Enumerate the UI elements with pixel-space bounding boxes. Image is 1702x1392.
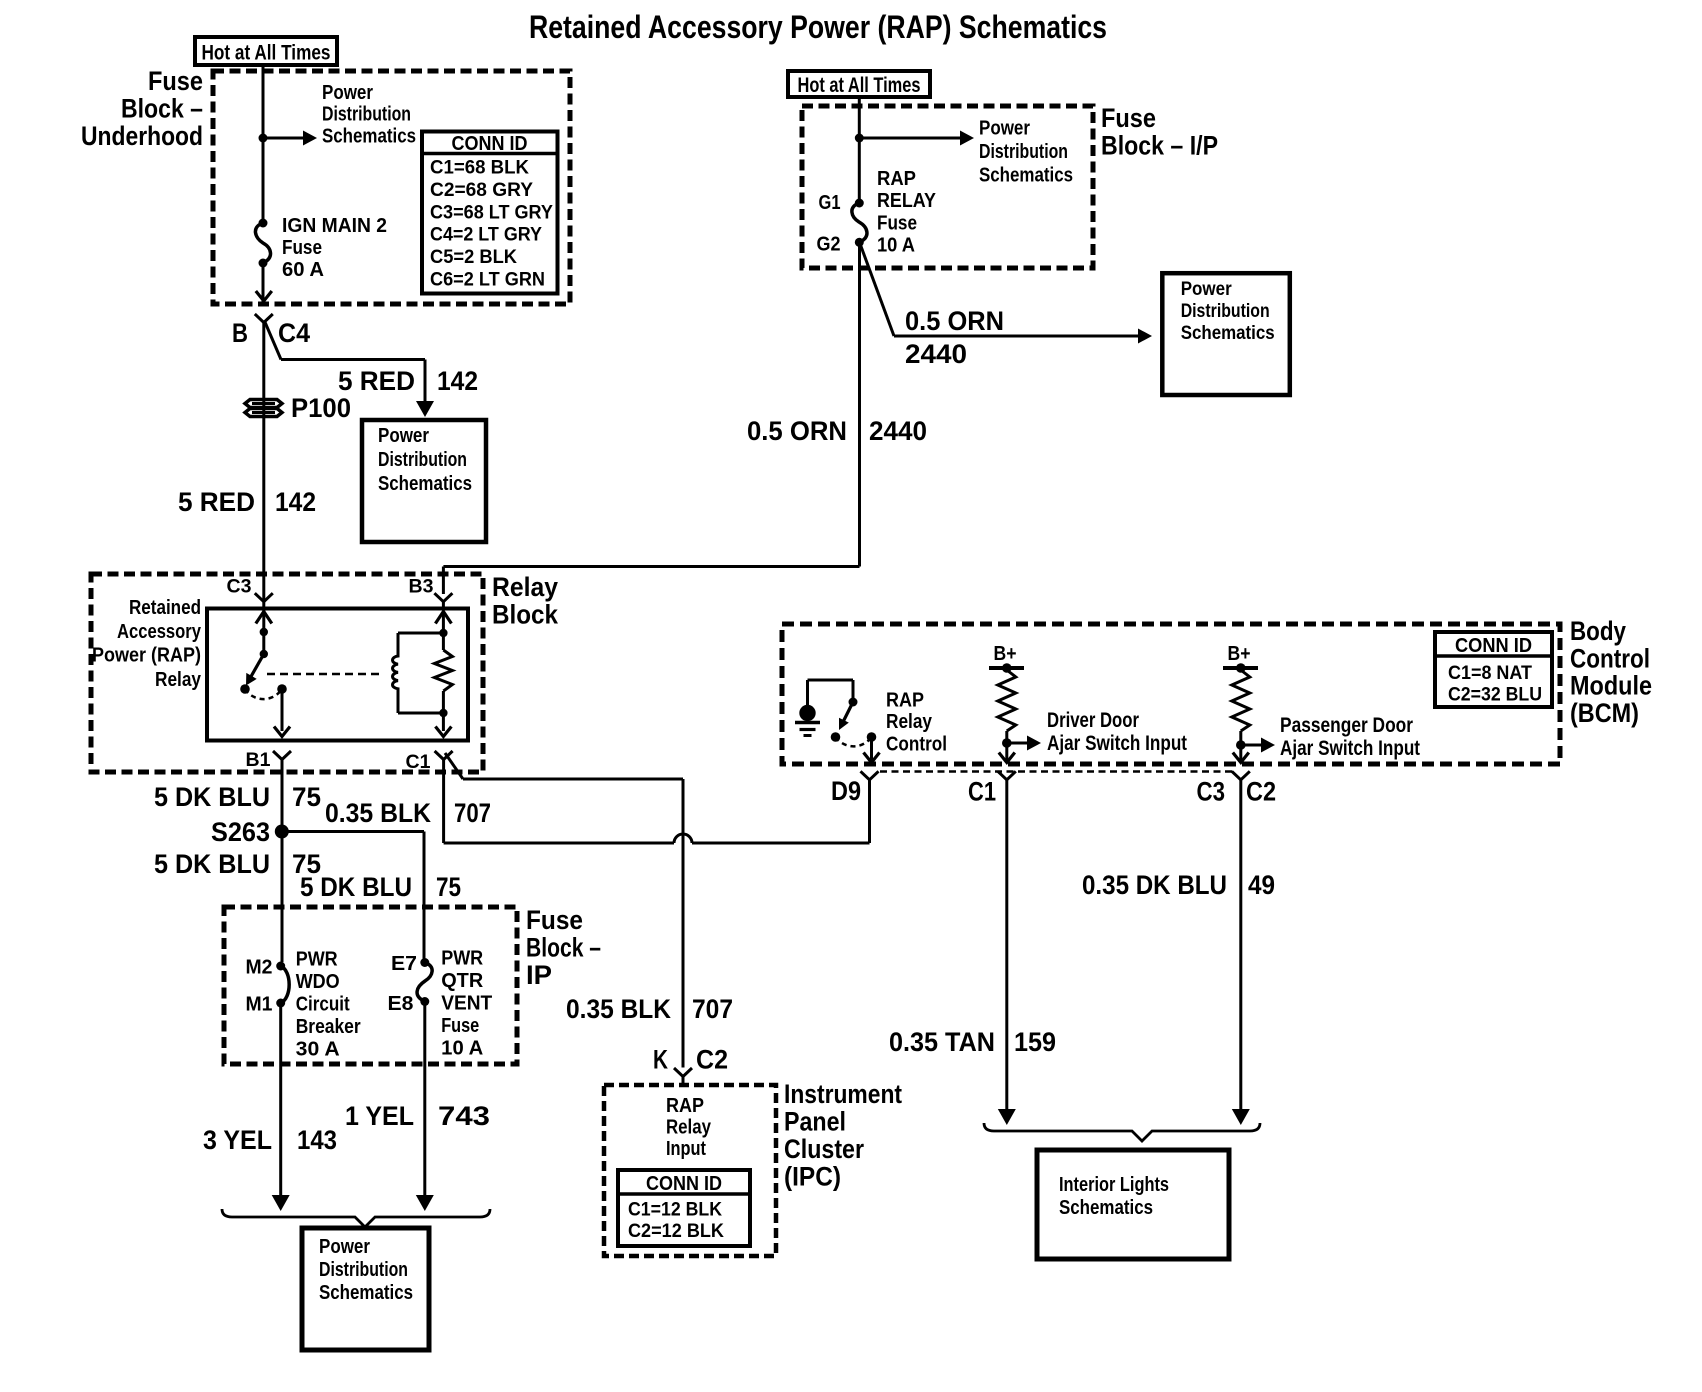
arrow wire to power distribution xyxy=(263,137,304,140)
svg-text:(IPC): (IPC) xyxy=(784,1162,841,1192)
C1 branch diagonal xyxy=(445,753,463,779)
CONN ID table (IPC) xyxy=(618,1170,750,1246)
svg-text:Module: Module xyxy=(1570,671,1652,701)
svg-text:P100: P100 xyxy=(291,393,351,423)
svg-text:(BCM): (BCM) xyxy=(1570,698,1639,728)
svg-text:Power: Power xyxy=(319,1236,370,1258)
svg-text:K: K xyxy=(653,1045,668,1075)
svg-text:RAP: RAP xyxy=(877,168,916,190)
svg-text:Distribution: Distribution xyxy=(319,1259,408,1281)
svg-text:Schematics: Schematics xyxy=(1181,323,1275,344)
svg-text:B+: B+ xyxy=(994,643,1017,665)
svg-text:Passenger Door: Passenger Door xyxy=(1280,714,1413,737)
fuse RAP RELAY 10A xyxy=(855,199,864,208)
ground (BCM) xyxy=(799,705,815,721)
svg-text:Relay: Relay xyxy=(492,572,558,602)
svg-text:Circuit: Circuit xyxy=(296,994,350,1016)
svg-text:C6=2 LT GRN: C6=2 LT GRN xyxy=(430,270,545,291)
svg-text:10 A: 10 A xyxy=(441,1038,483,1060)
junction on underhood feed xyxy=(259,134,268,143)
fuse IGN MAIN 2 60A xyxy=(259,219,268,228)
svg-text:Schematics: Schematics xyxy=(319,1282,413,1304)
relay resistor (parallel) xyxy=(435,612,451,624)
svg-text:Fuse: Fuse xyxy=(441,1015,479,1037)
svg-text:75: 75 xyxy=(436,872,461,902)
RAP relay solid box xyxy=(207,609,468,741)
wire hop over 707 vertical xyxy=(674,834,692,843)
svg-text:C1=12 BLK: C1=12 BLK xyxy=(628,1200,722,1221)
svg-text:RAP: RAP xyxy=(666,1095,704,1117)
svg-text:0.35 TAN: 0.35 TAN xyxy=(889,1027,995,1057)
branch wire 0.5 ORN 2440 arrow to power distribution xyxy=(860,244,894,336)
svg-text:B+: B+ xyxy=(1228,643,1251,665)
svg-text:Relay: Relay xyxy=(666,1117,712,1139)
svg-text:Fuse: Fuse xyxy=(526,905,583,935)
svg-text:0.35 BLK: 0.35 BLK xyxy=(566,994,671,1024)
svg-text:5 RED: 5 RED xyxy=(178,487,255,517)
svg-text:CONN ID: CONN ID xyxy=(452,133,528,155)
svg-text:C4=2 LT GRY: C4=2 LT GRY xyxy=(430,225,542,246)
svg-text:Block –: Block – xyxy=(526,933,601,963)
relay coil xyxy=(393,633,398,713)
svg-text:Relay: Relay xyxy=(886,711,933,733)
svg-text:Power: Power xyxy=(378,425,429,447)
Hot at All Times box (I/P) xyxy=(788,71,930,97)
svg-text:0.5 ORN: 0.5 ORN xyxy=(905,306,1004,336)
fuse block I/P dashed box xyxy=(802,106,1093,268)
svg-text:Power: Power xyxy=(979,118,1030,140)
svg-text:5 DK BLU: 5 DK BLU xyxy=(154,782,270,812)
svg-text:PWR: PWR xyxy=(296,949,338,971)
wire up to BCM D9 xyxy=(868,780,871,843)
svg-text:C1=8 NAT: C1=8 NAT xyxy=(1448,663,1532,684)
svg-text:C5=2 BLK: C5=2 BLK xyxy=(430,247,517,268)
svg-text:Hot at All Times: Hot at All Times xyxy=(202,42,331,65)
svg-text:49: 49 xyxy=(1248,870,1275,900)
svg-text:C3: C3 xyxy=(1197,777,1226,807)
connector B / C4 xyxy=(255,314,273,323)
svg-text:Fuse: Fuse xyxy=(877,213,917,235)
svg-text:10 A: 10 A xyxy=(877,235,915,257)
splice S263 xyxy=(275,825,289,839)
svg-text:M1: M1 xyxy=(246,994,273,1016)
relay switch travel dashed arc xyxy=(245,689,282,699)
svg-text:0.35 BLK: 0.35 BLK xyxy=(325,798,431,828)
wire 1 YEL 743 down xyxy=(423,1002,426,1197)
svg-text:S263: S263 xyxy=(211,817,270,847)
svg-text:B3: B3 xyxy=(409,577,434,598)
switch travel dashed arc (BCM) xyxy=(836,737,872,746)
svg-text:Schematics: Schematics xyxy=(1059,1197,1153,1219)
CONN ID table (underhood) xyxy=(422,132,558,294)
junction on I/P feed xyxy=(855,134,864,143)
svg-text:Retained Accessory Power (RAP): Retained Accessory Power (RAP) Schematic… xyxy=(529,9,1107,45)
svg-text:B: B xyxy=(232,318,248,348)
svg-text:Ajar Switch Input: Ajar Switch Input xyxy=(1047,732,1187,755)
branch wire from S263 to E7 xyxy=(282,830,424,833)
connector face thin dashed line xyxy=(880,770,1233,773)
wire hot1 to fuse IGN MAIN 2 xyxy=(262,65,265,223)
svg-text:C4: C4 xyxy=(278,318,310,348)
svg-text:743: 743 xyxy=(438,1101,490,1131)
svg-text:2440: 2440 xyxy=(905,339,967,369)
svg-text:C2=68 GRY: C2=68 GRY xyxy=(430,180,533,201)
svg-text:Schematics: Schematics xyxy=(378,473,472,495)
svg-text:G1: G1 xyxy=(819,192,841,214)
svg-text:3 YEL: 3 YEL xyxy=(203,1125,272,1155)
svg-text:Retained: Retained xyxy=(129,597,201,619)
svg-text:142: 142 xyxy=(275,487,316,517)
svg-text:PWR: PWR xyxy=(441,948,483,970)
svg-text:M2: M2 xyxy=(246,957,273,979)
svg-text:E7: E7 xyxy=(391,953,417,975)
svg-text:QTR: QTR xyxy=(441,970,484,992)
svg-text:Power (RAP): Power (RAP) xyxy=(92,645,201,667)
svg-text:Breaker: Breaker xyxy=(296,1016,361,1038)
svg-text:Control: Control xyxy=(1570,644,1650,674)
relay block dashed box xyxy=(91,574,483,772)
svg-text:Interior Lights: Interior Lights xyxy=(1059,1174,1169,1196)
svg-text:Instrument: Instrument xyxy=(784,1079,902,1109)
brace (left) xyxy=(222,1209,490,1227)
svg-text:Schematics: Schematics xyxy=(322,126,416,148)
svg-text:Panel: Panel xyxy=(784,1107,846,1137)
svg-text:Block – I/P: Block – I/P xyxy=(1101,131,1218,161)
svg-text:B1: B1 xyxy=(246,750,271,771)
svg-text:1 YEL: 1 YEL xyxy=(345,1101,414,1131)
body control module dashed box xyxy=(782,624,1560,764)
svg-text:Distribution: Distribution xyxy=(378,449,467,471)
svg-text:E8: E8 xyxy=(388,993,414,1015)
power distribution schematics box (right) xyxy=(1162,273,1290,395)
svg-text:Schematics: Schematics xyxy=(979,165,1073,187)
wire 0.5 ORN 2440 from G2 down to relay B3 xyxy=(858,242,861,566)
svg-text:75: 75 xyxy=(292,782,321,812)
fuse PWR QTR VENT 10A xyxy=(420,958,429,967)
svg-text:Fuse: Fuse xyxy=(282,237,322,259)
svg-text:143: 143 xyxy=(297,1125,337,1155)
grommet P100 xyxy=(245,400,282,408)
svg-text:C3: C3 xyxy=(227,577,252,598)
svg-text:VENT: VENT xyxy=(441,993,492,1015)
svg-text:Relay: Relay xyxy=(155,669,202,691)
svg-text:Distribution: Distribution xyxy=(322,104,411,126)
svg-text:Ajar Switch Input: Ajar Switch Input xyxy=(1280,737,1420,760)
wire C1 to IPC: horizontal then down xyxy=(463,778,683,781)
svg-text:0.35 DK BLU: 0.35 DK BLU xyxy=(1082,870,1227,900)
svg-text:C2=32 BLU: C2=32 BLU xyxy=(1448,685,1542,706)
svg-text:2440: 2440 xyxy=(869,416,927,446)
svg-text:Distribution: Distribution xyxy=(979,141,1068,163)
svg-text:D9: D9 xyxy=(831,776,861,806)
wire 0.35 TAN 159 down xyxy=(1005,780,1008,1110)
svg-text:5 DK BLU: 5 DK BLU xyxy=(300,872,412,902)
svg-text:C3=68 LT GRY: C3=68 LT GRY xyxy=(430,202,553,223)
svg-text:707: 707 xyxy=(692,994,733,1024)
svg-text:C2: C2 xyxy=(1246,777,1276,807)
resistor passenger door xyxy=(1232,670,1250,731)
interior lights schematics box xyxy=(1037,1150,1229,1259)
power distribution schematics box (left) xyxy=(362,420,486,542)
wire C1 0.35 BLK 707 down xyxy=(442,760,445,844)
brace (right) xyxy=(984,1123,1260,1141)
Hot at All Times box (underhood) xyxy=(195,37,337,65)
svg-text:RELAY: RELAY xyxy=(877,190,937,212)
RAP relay control switch xyxy=(806,680,809,706)
relay switch (from C3) xyxy=(256,612,272,624)
circuit breaker PWR WDO 30A xyxy=(276,962,285,971)
svg-text:Input: Input xyxy=(666,1138,706,1160)
svg-text:RAP: RAP xyxy=(886,690,924,712)
svg-text:5 DK BLU: 5 DK BLU xyxy=(154,849,270,879)
power distribution schematics box (bottom) xyxy=(302,1228,429,1350)
svg-text:Power: Power xyxy=(1181,279,1233,300)
svg-text:Accessory: Accessory xyxy=(117,621,202,643)
svg-text:G2: G2 xyxy=(817,234,841,256)
svg-text:C1=68 BLK: C1=68 BLK xyxy=(430,158,529,179)
wire C4 to relay C3 xyxy=(262,323,265,602)
wire B1 5 DK BLU to S263 and M2 xyxy=(281,760,284,963)
wire fuse to box edge xyxy=(262,263,265,302)
svg-text:Block –: Block – xyxy=(121,94,203,124)
svg-text:IGN MAIN 2: IGN MAIN 2 xyxy=(282,215,387,237)
svg-text:707: 707 xyxy=(454,798,491,828)
svg-text:CONN ID: CONN ID xyxy=(646,1173,722,1195)
svg-text:Fuse: Fuse xyxy=(148,66,203,96)
wire hot2 to RAP RELAY fuse xyxy=(858,97,861,203)
svg-text:C1: C1 xyxy=(968,777,996,807)
svg-text:CONN ID: CONN ID xyxy=(1455,635,1532,657)
svg-text:Distribution: Distribution xyxy=(1181,301,1270,322)
svg-text:C2: C2 xyxy=(696,1045,728,1075)
instrument panel cluster dashed box xyxy=(604,1085,776,1256)
resistor driver door xyxy=(998,670,1016,731)
wire 0.35 DK BLU 49 down xyxy=(1239,780,1242,1110)
svg-text:IP: IP xyxy=(526,960,552,990)
svg-text:30 A: 30 A xyxy=(296,1039,340,1061)
wire 707 horizontal to D9 with hop xyxy=(444,842,674,845)
svg-text:60 A: 60 A xyxy=(282,259,324,281)
wire 3 YEL 143 down xyxy=(279,1003,282,1196)
CONN ID table (BCM) xyxy=(1435,632,1552,707)
svg-text:Hot at All Times: Hot at All Times xyxy=(798,74,921,97)
wire switch to B1 xyxy=(281,689,284,731)
fuse block IP dashed box xyxy=(224,907,517,1064)
svg-text:C1: C1 xyxy=(406,752,431,773)
fuse block underhood dashed box xyxy=(213,71,570,304)
svg-text:Body: Body xyxy=(1570,616,1626,646)
svg-text:C2=12 BLK: C2=12 BLK xyxy=(628,1221,724,1242)
svg-text:159: 159 xyxy=(1014,1027,1056,1057)
svg-text:Control: Control xyxy=(886,734,947,756)
arrow wire to power distribution (I/P) xyxy=(859,137,961,140)
svg-text:Block: Block xyxy=(492,600,559,630)
svg-text:WDO: WDO xyxy=(296,971,340,993)
relay actuation dashed link xyxy=(267,673,383,676)
svg-text:0.5 ORN: 0.5 ORN xyxy=(747,416,847,446)
svg-text:Driver Door: Driver Door xyxy=(1047,709,1139,732)
svg-text:5 RED: 5 RED xyxy=(338,366,415,396)
svg-text:142: 142 xyxy=(437,366,478,396)
svg-text:Fuse: Fuse xyxy=(1101,103,1156,133)
svg-text:Underhood: Underhood xyxy=(81,121,203,151)
branch wire 5 RED 142 to power distribution xyxy=(265,321,282,360)
svg-text:Power: Power xyxy=(322,82,373,104)
svg-text:Cluster: Cluster xyxy=(784,1134,864,1164)
